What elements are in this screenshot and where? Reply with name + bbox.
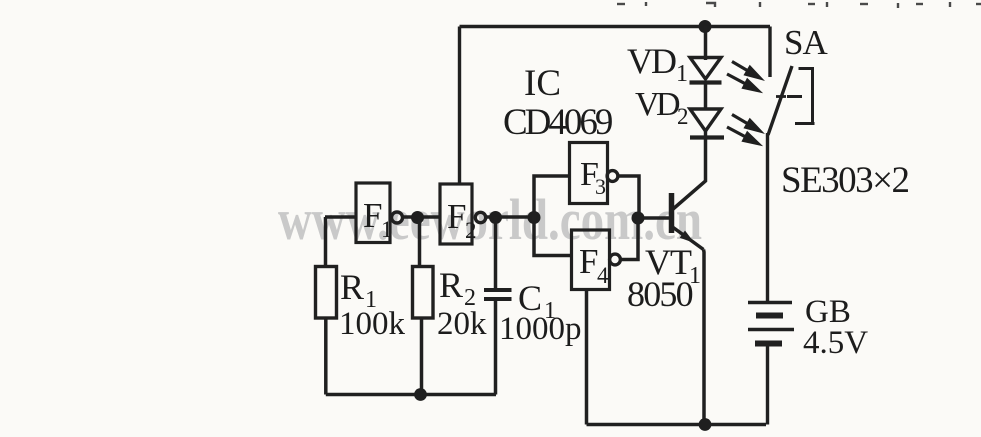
VD1 light arrows bbox=[727, 62, 760, 91]
wire: C1 top lead bbox=[494, 217, 498, 288]
wire: R1 bottom lead bbox=[324, 318, 328, 395]
wire: feedback drop from top rail to F2 top bbox=[458, 27, 461, 185]
wire: between VD1 and VD2 bbox=[704, 83, 708, 110]
svg-text:VD: VD bbox=[635, 86, 680, 123]
wire: F3 output to junction bbox=[618, 176, 639, 218]
svg-text:4: 4 bbox=[597, 263, 609, 288]
svg-text:1000p: 1000p bbox=[499, 311, 582, 347]
wire: F4 output to junction bbox=[620, 218, 638, 260]
resistor R2 body bbox=[413, 267, 434, 319]
wire: branch up to F3 input bbox=[534, 176, 570, 217]
transistor VT1 base bar bbox=[669, 193, 675, 233]
svg-text:SE303×2: SE303×2 bbox=[781, 160, 909, 201]
node: F3/F4 outputs junction bbox=[632, 212, 645, 225]
node: C1 top junction bbox=[489, 211, 502, 224]
wire: switch to battery positive lead bbox=[766, 133, 769, 301]
svg-text:2: 2 bbox=[465, 218, 477, 243]
node: R2 top junction bbox=[411, 211, 424, 224]
svg-text:IC: IC bbox=[524, 63, 561, 104]
F4 output bubble bbox=[610, 254, 621, 265]
switch SA crossbar dash bbox=[776, 95, 786, 98]
svg-text:F: F bbox=[447, 197, 466, 236]
node: top rail / LED branch junction bbox=[699, 20, 712, 33]
svg-text:20k: 20k bbox=[437, 306, 487, 342]
svg-text:SA: SA bbox=[784, 23, 828, 62]
wire: top-rail right drop toward switch bbox=[768, 27, 771, 78]
transistor VT1 emitter with arrow bbox=[673, 227, 704, 250]
svg-text:8050: 8050 bbox=[627, 274, 693, 314]
svg-text:F: F bbox=[579, 242, 598, 281]
switch SA arm bbox=[768, 66, 792, 135]
svg-text:R: R bbox=[439, 265, 463, 305]
wire: bottom left ground rail bbox=[326, 393, 496, 396]
wire: LED branch from top rail bbox=[704, 27, 708, 58]
svg-text:3: 3 bbox=[595, 174, 606, 199]
node: F3/F4 input junction bbox=[528, 211, 541, 224]
svg-text:2: 2 bbox=[677, 104, 689, 129]
wire: R1 top to F1 input bbox=[325, 215, 356, 219]
svg-text:1: 1 bbox=[676, 61, 688, 87]
wire: R1 top lead bbox=[324, 217, 328, 267]
wire: R2 bottom lead bbox=[420, 318, 424, 395]
F2 output bubble bbox=[475, 212, 485, 222]
top edge scan specks bbox=[617, 2, 981, 8]
wire: base wire from gate outputs node bbox=[638, 216, 670, 220]
wire: R2 top lead bbox=[418, 217, 422, 267]
svg-text:100k: 100k bbox=[339, 306, 406, 342]
svg-text:1: 1 bbox=[381, 217, 393, 242]
LED VD2 bbox=[690, 109, 724, 138]
inverter F3 box bbox=[570, 143, 608, 204]
wire: top rail bbox=[460, 25, 771, 29]
svg-text:F: F bbox=[363, 196, 382, 235]
wire: F2 output chain to gates input node bbox=[486, 215, 535, 219]
wire: F1 output to F2 input bbox=[403, 215, 441, 219]
svg-text:4.5V: 4.5V bbox=[803, 325, 868, 361]
wire: bottom right ground rail bbox=[587, 423, 767, 426]
svg-text:CD4069: CD4069 bbox=[503, 102, 612, 143]
F1 output bubble bbox=[392, 212, 403, 223]
wire: VD2 cathode down to collector diagonal bbox=[673, 138, 706, 210]
battery GB plates bbox=[748, 301, 792, 305]
node: bottom left rail junction bbox=[414, 388, 427, 401]
VD2 light arrows bbox=[727, 115, 760, 144]
wire: C1 bottom lead bbox=[494, 301, 498, 395]
inverter F2 box bbox=[440, 184, 472, 244]
LED VD1 bbox=[690, 57, 722, 83]
inverter F1 box bbox=[356, 183, 390, 243]
wire: F4 bottom lead to bottom rail bbox=[585, 290, 589, 425]
node: emitter / bottom rail junction bbox=[699, 418, 712, 431]
F3 output bubble bbox=[607, 171, 618, 182]
resistor R1 body bbox=[316, 267, 337, 319]
wire: battery negative lead to bottom rail bbox=[766, 346, 769, 425]
capacitor C1 plates bbox=[484, 288, 512, 292]
svg-text:VD: VD bbox=[627, 41, 676, 81]
wire: emitter down to bottom rail bbox=[702, 250, 706, 425]
switch SA actuator bracket bbox=[787, 69, 815, 124]
svg-text:R: R bbox=[340, 267, 364, 307]
inverter F4 box bbox=[572, 230, 610, 290]
wire: branch down to F4 input bbox=[534, 217, 572, 256]
